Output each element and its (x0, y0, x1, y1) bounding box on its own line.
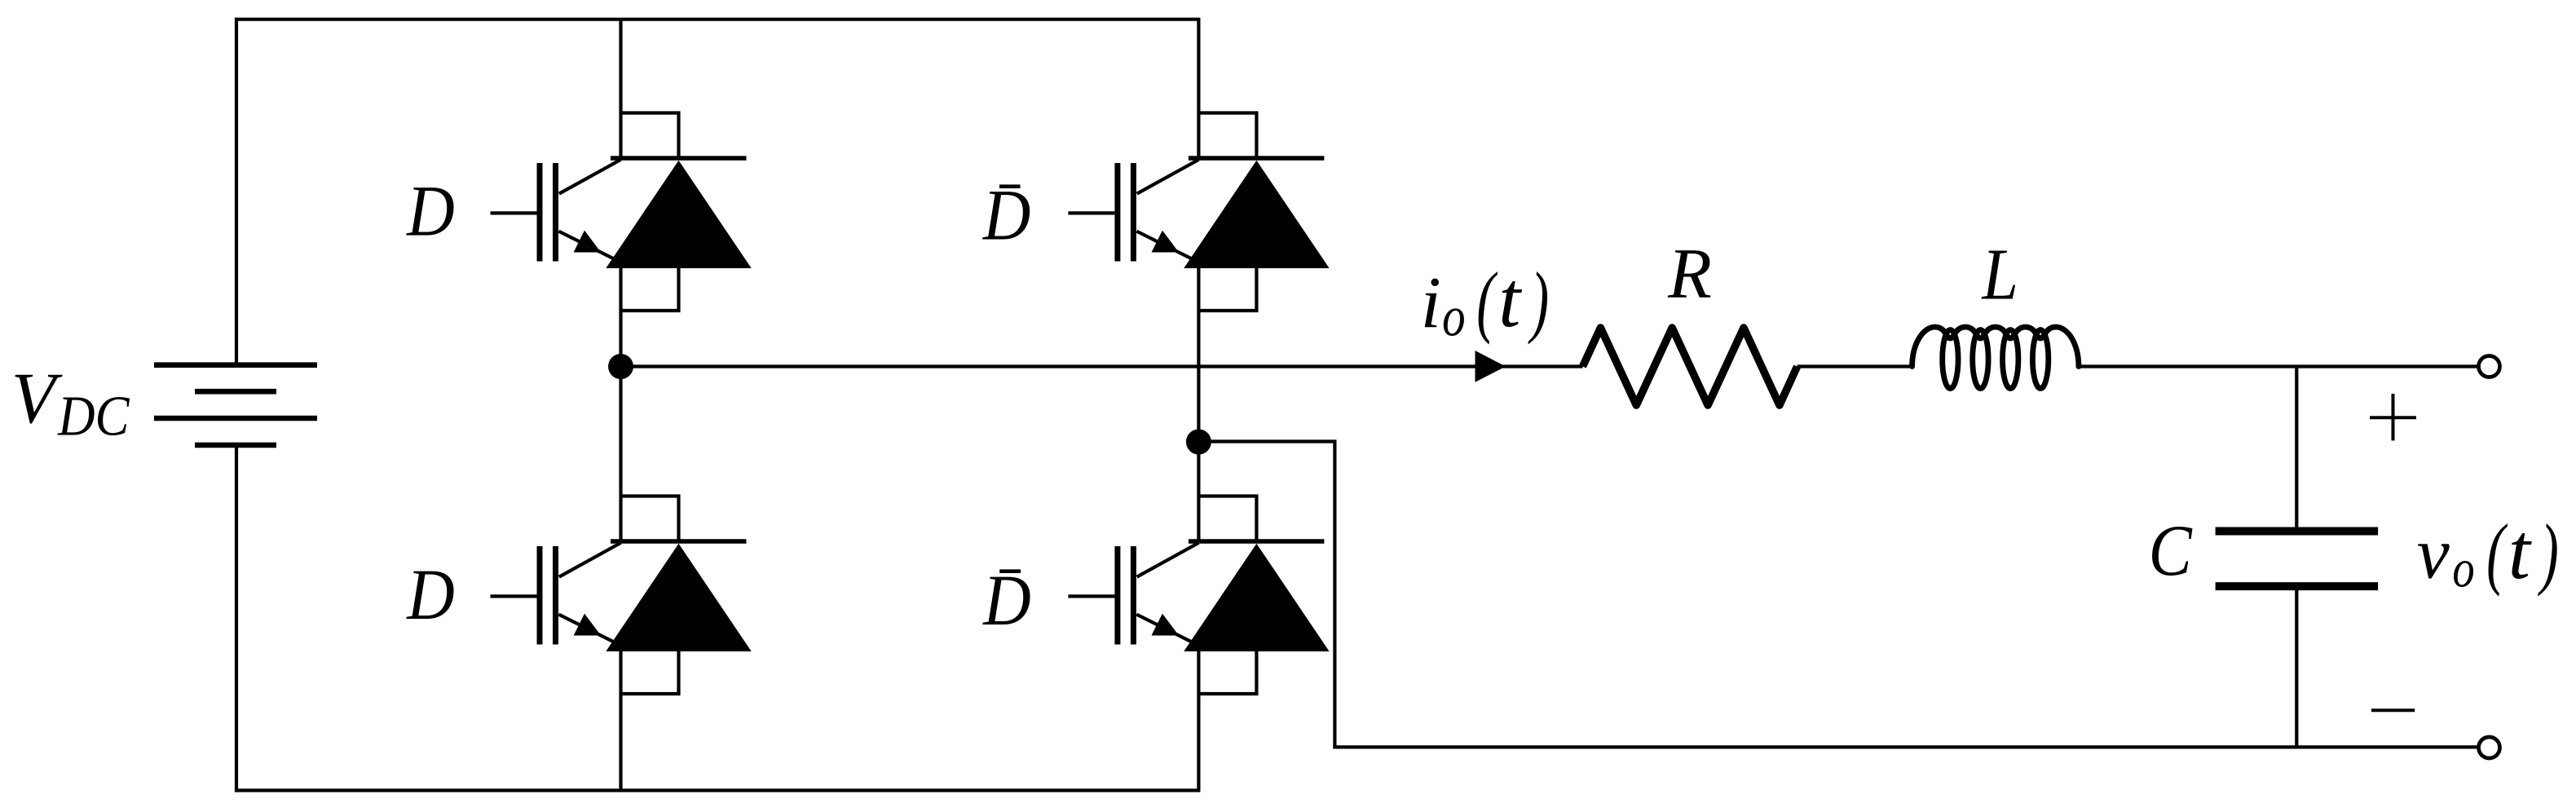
battery VDC: short plate 2 (195, 443, 276, 448)
svg-text:V: V (11, 359, 63, 439)
svg-text:t: t (1498, 256, 1522, 343)
wire: left leg, lower diode anode to bottom rail (619, 650, 622, 791)
diode (top-right) cathode bar / collector bar (1189, 156, 1325, 161)
battery VDC: short plate 1 (195, 389, 276, 395)
IGBT Dbar (top-right) gate bar (1114, 163, 1120, 262)
IGBT D (bottom-left) emitter arrowhead (574, 614, 602, 636)
inductor L coil (1912, 327, 2079, 367)
IGBT D (top-left) collector lead (diagonal) (559, 160, 621, 194)
IGBT Dbar (top-right) emitter arrowhead (1152, 231, 1180, 253)
svg-text:v: v (2417, 513, 2450, 594)
battery VDC: long plate 2 (154, 416, 317, 421)
output terminal circle (-) (2479, 737, 2500, 758)
IGBT Dbar (bottom-right) body bar (1131, 546, 1136, 645)
polarity minus sign (2371, 708, 2415, 712)
svg-text:(: ( (2486, 508, 2508, 597)
IGBT D (bottom-left) emitter lead (diagonal) (558, 615, 614, 642)
IGBT D (top-left) gate lead (491, 211, 537, 214)
IGBT Dbar (top-right) gate lead (1068, 211, 1114, 214)
IGBT D (bottom-left) collector lead (diagonal) (559, 543, 621, 577)
connection bracket top (D (bottom-left)) (621, 496, 679, 544)
svg-text:i: i (1421, 263, 1441, 343)
inductor L loop 4 (2032, 330, 2048, 389)
IGBT D (top-left) body bar (553, 163, 558, 262)
diode (bottom-right) cathode bar / collector bar (1189, 539, 1325, 544)
wire: top DC bus rail (235, 18, 1200, 21)
wire: left leg upper (battery + to top rail) (235, 18, 238, 365)
wire: right leg, upper diode anode to lower collector bar (1197, 267, 1200, 543)
IGBT Dbar (bottom-right) gate lead (1068, 594, 1114, 598)
svg-text:D: D (406, 172, 454, 252)
svg-text:D: D (406, 555, 454, 635)
IGBT D (top-left) emitter arrowhead (574, 231, 602, 253)
IGBT D (top-left) gate bar (537, 163, 543, 262)
IGBT Dbar (bottom-right) emitter arrowhead (1152, 614, 1180, 636)
connection bracket top (Dbar (top-right)) (1198, 113, 1256, 161)
svg-text:t: t (2508, 508, 2532, 595)
connection bracket top (D (top-left)) (621, 113, 679, 161)
diode (bottom-right) body (filled triangle, pointing up) (1184, 544, 1329, 651)
diode (top-left) cathode bar / collector bar (611, 156, 747, 161)
IGBT Dbar (top-right) body bar (1131, 163, 1136, 262)
diode (top-right) body (filled triangle, pointing up) (1184, 161, 1329, 268)
wire: output mid rail from node A to resistor R (621, 364, 1583, 368)
current direction arrowhead io(t) (1475, 351, 1506, 382)
inductor L loop 1 (1943, 330, 1958, 389)
connection bracket bottom (Dbar (bottom-right)) (1198, 651, 1256, 694)
wire: right half-bridge leg, top rail to upper collector bar (1197, 20, 1200, 160)
svg-text:L: L (1981, 234, 2018, 315)
connection bracket bottom (D (top-left)) (621, 268, 679, 311)
IGBT Dbar (bottom-right) collector lead (diagonal) (1137, 543, 1199, 577)
diode (bottom-left) cathode bar / collector bar (611, 539, 747, 544)
IGBT D (bottom-left) gate bar (537, 546, 543, 645)
wire: right vertical return segment (1333, 440, 1336, 749)
connection bracket top (Dbar (bottom-right)) (1198, 496, 1256, 544)
wire: bottom output wire to terminal - (1333, 745, 2478, 748)
svg-text:o: o (1442, 285, 1466, 348)
wire: bottom DC bus rail (235, 788, 1200, 792)
wire: left leg, upper diode anode to lower collector bar (619, 267, 622, 543)
battery VDC: long plate 1 (154, 362, 317, 368)
svg-text:C: C (2149, 511, 2194, 591)
svg-text:R: R (1667, 235, 1712, 314)
IGBT Dbar (top-right) collector lead (diagonal) (1137, 160, 1199, 194)
IGBT Dbar (top-right) emitter lead (diagonal) (1136, 232, 1192, 259)
resistor R zigzag (1583, 328, 1797, 405)
wire: left leg lower (battery - to bottom rail) (235, 445, 238, 792)
svg-text:): ) (2538, 508, 2559, 597)
svg-text:DC: DC (57, 386, 130, 448)
wire: left half-bridge leg, top rail to upper collector bar (619, 20, 622, 160)
inductor L loop 3 (2003, 330, 2018, 389)
diode (bottom-left) body (filled triangle, pointing up) (606, 544, 751, 651)
wire: right leg, lower diode anode to bottom rail (1197, 650, 1200, 791)
wire: between resistor R and inductor L (1797, 364, 1912, 368)
connection bracket bottom (Dbar (top-right)) (1198, 268, 1256, 311)
IGBT D (bottom-left) body bar (553, 546, 558, 645)
svg-text:(: ( (1476, 257, 1498, 346)
wire: node B to right vertical return (1198, 439, 1336, 443)
IGBT D (top-left) emitter lead (diagonal) (558, 232, 614, 259)
IGBT Dbar (bottom-right) emitter lead (diagonal) (1136, 615, 1192, 642)
svg-text:o: o (2452, 539, 2474, 599)
node A: left leg midpoint junction dot (608, 354, 633, 379)
IGBT D (bottom-left) gate lead (491, 594, 537, 598)
wire: capacitor C top branch (2295, 367, 2298, 527)
connection bracket bottom (D (bottom-left)) (621, 651, 679, 694)
capacitor C top plate (2216, 527, 2379, 536)
inductor L loop 2 (1973, 330, 1988, 389)
svg-text:): ) (1528, 257, 1549, 346)
output terminal circle (+) (2479, 356, 2500, 377)
wire: inductor L to output terminal + (2077, 364, 2479, 368)
IGBT Dbar (bottom-right) gate bar (1114, 546, 1120, 645)
wire: capacitor C bottom branch (2295, 586, 2298, 747)
polarity plus sign (2370, 416, 2416, 419)
capacitor C bottom plate (2216, 582, 2379, 590)
diode (top-left) body (filled triangle, pointing up) (606, 161, 751, 268)
node B: right leg midpoint junction dot (1186, 430, 1211, 455)
